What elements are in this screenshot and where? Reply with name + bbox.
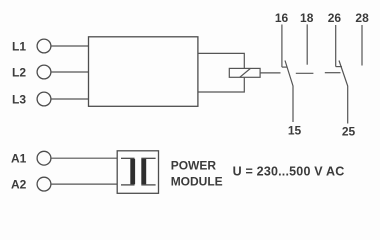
transformer icon left yoke bottom: [121, 184, 135, 186]
terminal line 18: [306, 24, 308, 64]
NC contact seat 26: [336, 66, 342, 68]
svg-text:15: 15: [288, 123, 302, 137]
svg-text:L2: L2: [12, 66, 26, 80]
wire module to relay (bottom): [198, 77, 244, 92]
svg-text:25: 25: [342, 125, 356, 139]
mechanical linkage dash 1: [260, 72, 280, 74]
mechanical linkage dash 2: [296, 72, 314, 74]
terminal circle A2: [37, 177, 51, 191]
contact arm 15: [285, 61, 293, 123]
terminal line 28: [361, 25, 363, 66]
contact arm 25: [339, 61, 348, 124]
terminal circle L1: [37, 39, 51, 53]
transformer icon right yoke top: [141, 157, 155, 159]
svg-text:MODULE: MODULE: [171, 175, 223, 189]
terminal line 26: [335, 25, 337, 67]
terminal line 16: [281, 25, 283, 68]
monitoring module box: [89, 37, 198, 107]
mechanical linkage dash 3: [325, 72, 341, 74]
terminal circle A1: [37, 151, 51, 165]
svg-text:U = 230...500 V AC: U = 230...500 V AC: [233, 164, 345, 178]
svg-text:16: 16: [275, 11, 289, 25]
svg-text:L3: L3: [12, 93, 26, 107]
transformer icon left core bar: [130, 159, 135, 184]
wire A2 to power module: [51, 183, 117, 185]
wire module to relay (top): [198, 53, 244, 68]
terminal circle L2: [37, 65, 51, 79]
wire L1 to module: [51, 45, 89, 47]
transformer icon right core bar: [141, 159, 146, 184]
transformer icon right yoke bottom: [141, 184, 155, 186]
svg-text:A2: A2: [11, 178, 27, 192]
transformer icon left yoke top: [121, 157, 135, 159]
svg-text:A1: A1: [11, 152, 27, 166]
svg-text:L1: L1: [12, 40, 26, 54]
svg-text:18: 18: [300, 11, 314, 25]
power module box: [117, 151, 158, 194]
relay coil K1: [229, 68, 260, 77]
svg-text:26: 26: [328, 11, 342, 25]
wire L3 to module: [51, 98, 89, 100]
relay coil diagonal: [240, 68, 251, 77]
NC contact seat 16: [282, 66, 287, 68]
svg-text:28: 28: [355, 11, 369, 25]
wire A1 to power module: [51, 157, 117, 159]
terminal circle L3: [37, 92, 51, 106]
wire L2 to module: [51, 71, 89, 73]
svg-text:POWER: POWER: [171, 159, 217, 173]
